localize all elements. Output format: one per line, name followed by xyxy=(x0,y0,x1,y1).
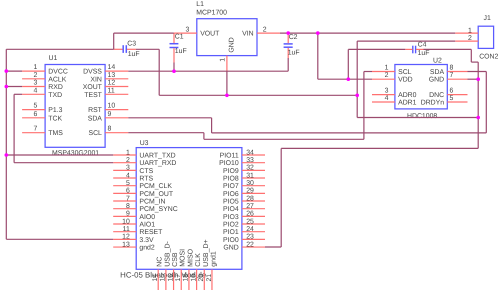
svg-text:30: 30 xyxy=(246,180,254,187)
wire VDD row xyxy=(318,78,372,80)
svg-text:PIO11: PIO11 xyxy=(220,153,239,160)
U3 pin 1 UART_TXD stub xyxy=(113,154,136,156)
L1 pin 3 VOUT stub xyxy=(174,32,197,34)
svg-text:SDA: SDA xyxy=(430,69,445,76)
svg-text:U1: U1 xyxy=(49,55,58,62)
wire GND net to U3 pin22 xyxy=(265,246,281,248)
svg-text:6: 6 xyxy=(450,88,454,95)
ic U2 box HDC1008 xyxy=(395,65,447,109)
svg-text:GND: GND xyxy=(223,245,238,252)
wire SCL net from U1 pin8 xyxy=(128,132,204,134)
svg-text:ADR1: ADR1 xyxy=(398,100,417,107)
svg-text:TXD: TXD xyxy=(48,92,62,99)
svg-text:U2: U2 xyxy=(433,57,442,64)
svg-text:1uF: 1uF xyxy=(288,50,300,57)
svg-text:3: 3 xyxy=(33,80,37,87)
svg-text:2: 2 xyxy=(263,26,267,33)
svg-text:DNC: DNC xyxy=(429,92,444,99)
wire 3.3V net C3-left run xyxy=(6,48,113,50)
wire GND net lower row xyxy=(357,117,478,119)
svg-text:C1: C1 xyxy=(175,34,184,41)
svg-text:NC: NC xyxy=(157,257,164,267)
svg-text:C2: C2 xyxy=(289,34,298,41)
svg-text:J1: J1 xyxy=(484,15,491,22)
junction C1 bottom xyxy=(172,69,176,73)
svg-text:gnd1: gnd1 xyxy=(209,251,217,267)
junction VDD tap xyxy=(316,31,320,35)
wire 3.3V to U3 pin12 xyxy=(6,238,113,240)
wire GND net C3-right run xyxy=(136,48,159,50)
U2 pin 1 SCL stub xyxy=(372,71,395,73)
capacitor C1 plates xyxy=(170,43,179,45)
svg-text:PIO1: PIO1 xyxy=(223,229,239,236)
regulator L1 box MCP1700 xyxy=(197,19,257,56)
C4 left pin stub xyxy=(405,48,412,50)
svg-text:DRDYn: DRDYn xyxy=(421,100,445,107)
U3 pin 10 AIO1 stub xyxy=(113,223,136,225)
svg-text:1: 1 xyxy=(468,27,472,34)
U3 pin 27 PIO4 stub xyxy=(242,208,265,210)
svg-text:TMS: TMS xyxy=(48,130,63,137)
svg-text:HDC1008: HDC1008 xyxy=(407,113,437,120)
U3 pin 29 PIO6 stub xyxy=(242,192,265,194)
U3 pin 18 MISO stub xyxy=(188,269,190,290)
wire DVCC branch xyxy=(6,70,22,72)
wire DVSS net row xyxy=(128,70,288,72)
svg-text:RTS: RTS xyxy=(139,176,153,183)
junction C4 left xyxy=(347,77,351,81)
U3 pin 5 PCM_CLK stub xyxy=(113,185,136,187)
U3 pin 20 USB_D+ stub xyxy=(203,269,205,290)
svg-text:DVSS: DVSS xyxy=(83,69,102,76)
C1 top pin stub xyxy=(173,33,175,43)
svg-text:3: 3 xyxy=(385,88,389,95)
U3 pin 3 CTS stub xyxy=(113,169,136,171)
svg-text:23: 23 xyxy=(246,234,254,241)
U3 pin 21 gnd1 stub xyxy=(211,269,213,290)
wire C4 right jog xyxy=(471,61,478,63)
U1 pin 4 TXD stub xyxy=(22,93,45,95)
U1 pin 2 ACLK stub xyxy=(22,78,45,80)
junction C2 top xyxy=(286,31,290,35)
svg-text:PIO8: PIO8 xyxy=(223,176,239,183)
svg-text:UART_TXD: UART_TXD xyxy=(139,153,175,160)
svg-text:CTS: CTS xyxy=(139,168,153,175)
svg-text:CON2: CON2 xyxy=(479,54,498,61)
capacitor C4 plates xyxy=(412,46,414,54)
svg-text:PIO0: PIO0 xyxy=(223,237,239,244)
U1 pin 5 P1.3 stub xyxy=(22,109,45,111)
U1 pin 6 TCK stub xyxy=(22,117,45,119)
U1 pin 3 RXD stub xyxy=(22,86,45,88)
wire VDD drop xyxy=(317,33,319,79)
svg-text:VIN: VIN xyxy=(242,31,254,38)
svg-text:8: 8 xyxy=(126,203,130,210)
wire SCL net up vertical xyxy=(363,72,365,140)
wire TXD net horizontal at U1 xyxy=(14,93,22,95)
svg-text:1: 1 xyxy=(385,65,389,72)
svg-text:XOUT: XOUT xyxy=(83,84,103,91)
U2 pin 4 ADR1 stub xyxy=(372,101,395,103)
svg-text:7: 7 xyxy=(33,126,37,133)
ic U1 box MSP430G2001 xyxy=(45,65,105,148)
svg-text:VOUT: VOUT xyxy=(200,31,220,38)
svg-text:13: 13 xyxy=(108,72,116,79)
U3 pin 12 3.3V stub xyxy=(113,238,136,240)
U3 pin 9 AIO0 stub xyxy=(113,215,136,217)
svg-text:13: 13 xyxy=(122,241,130,248)
U3 pin 8 PCM_SYNC stub xyxy=(113,208,136,210)
svg-text:SCL: SCL xyxy=(88,130,102,137)
svg-text:gnd2: gnd2 xyxy=(139,245,154,252)
L1 pin 2 VIN stub xyxy=(257,32,280,34)
svg-text:SDA: SDA xyxy=(88,115,103,122)
wire L1 GND link xyxy=(226,71,228,95)
svg-text:9: 9 xyxy=(108,111,112,118)
module U3 box HC-05 xyxy=(136,148,242,270)
svg-text:3: 3 xyxy=(126,165,130,172)
svg-text:C3: C3 xyxy=(127,40,136,47)
svg-text:22: 22 xyxy=(246,241,254,248)
U3 pin 30 PIO7 stub xyxy=(242,185,265,187)
J1 pin 2 stub xyxy=(455,40,478,42)
svg-text:16: 16 xyxy=(167,274,174,282)
U3 pin 22 GND stub xyxy=(242,246,265,248)
svg-text:1uF: 1uF xyxy=(175,48,187,55)
U3 pin 23 PIO0 stub xyxy=(242,238,265,240)
svg-text:14: 14 xyxy=(152,274,159,282)
svg-text:4: 4 xyxy=(126,172,130,179)
wire GND net J1 vertical xyxy=(356,41,358,117)
U1 pin 1 DVCC stub xyxy=(22,70,45,72)
U3 pin 15 USB_D- stub xyxy=(165,269,167,290)
svg-text:11: 11 xyxy=(123,226,130,233)
svg-text:DVCC: DVCC xyxy=(48,69,68,76)
svg-text:PIO3: PIO3 xyxy=(223,214,239,221)
wire SCL net to U2 pin1 xyxy=(364,71,372,73)
svg-text:MSP430G2001: MSP430G2001 xyxy=(52,150,99,157)
U1 pin 12 XOUT stub xyxy=(105,86,128,88)
svg-text:ADR0: ADR0 xyxy=(398,92,417,99)
U2 pin 8 SDA stub xyxy=(447,71,467,73)
svg-text:2: 2 xyxy=(126,157,130,164)
svg-text:10: 10 xyxy=(122,218,130,225)
wire 3.3V net drop to C3 row xyxy=(113,33,115,49)
junction GND lower xyxy=(476,116,480,120)
C3 right pin stub xyxy=(127,48,136,50)
svg-text:10: 10 xyxy=(108,103,116,110)
U3 pin 7 PCM_IN stub xyxy=(113,200,136,202)
svg-text:34: 34 xyxy=(246,149,254,156)
svg-text:31: 31 xyxy=(246,172,254,179)
wire SDA net to U2 pin8 xyxy=(468,71,487,73)
capacitor C2 plates xyxy=(284,43,293,45)
U1 pin 8 SCL stub xyxy=(105,132,128,134)
U3 pin 16 CSB stub xyxy=(173,269,175,290)
wire C4 left vertical xyxy=(347,49,349,79)
junction U2 GND xyxy=(476,77,480,81)
svg-text:SCL: SCL xyxy=(398,69,412,76)
svg-text:PIO10: PIO10 xyxy=(219,160,239,167)
svg-text:GND: GND xyxy=(429,77,444,84)
svg-text:7: 7 xyxy=(450,72,454,79)
U3 pin 24 PIO1 stub xyxy=(242,231,265,233)
wire SDA net right vertical xyxy=(485,72,487,133)
wire GND net J1 pin2 row xyxy=(357,40,455,42)
svg-text:PCM_SYNC: PCM_SYNC xyxy=(139,206,177,213)
U1 pin 10 RST stub xyxy=(105,109,128,111)
U3 pin 25 PIO2 stub xyxy=(242,223,265,225)
U3 pin 34 PIO11 stub xyxy=(242,154,265,156)
svg-text:UART_RXD: UART_RXD xyxy=(139,160,176,167)
U2 pin 2 VDD stub xyxy=(372,78,395,80)
svg-text:USB_D+: USB_D+ xyxy=(203,239,210,266)
J1 pin 1 stub xyxy=(455,32,478,34)
svg-text:PCM_CLK: PCM_CLK xyxy=(139,183,172,190)
svg-text:AIO0: AIO0 xyxy=(139,214,155,221)
wire C4 left run xyxy=(348,48,405,50)
svg-text:8: 8 xyxy=(108,126,112,133)
svg-text:RESET: RESET xyxy=(139,229,163,236)
U1 pin 7 TMS stub xyxy=(22,132,45,134)
wire C4 right run xyxy=(424,48,472,50)
svg-text:7: 7 xyxy=(126,195,130,202)
wire SCL net jog down xyxy=(203,133,205,140)
svg-text:2: 2 xyxy=(33,72,37,79)
wire 3.3V net VOUT row xyxy=(114,32,174,34)
U3 pin 26 PIO3 stub xyxy=(242,215,265,217)
wire GND net right vertical xyxy=(477,62,479,148)
U3 pin 19 CLK stub xyxy=(196,269,198,290)
svg-text:3: 3 xyxy=(186,26,190,33)
junction GND mid xyxy=(355,94,359,98)
svg-text:12: 12 xyxy=(108,80,116,87)
U3 pin 11 RESET stub xyxy=(113,231,136,233)
wire C2 bottom link xyxy=(287,58,289,71)
svg-text:33: 33 xyxy=(246,157,254,164)
svg-text:1: 1 xyxy=(220,58,227,62)
wire GND net main row xyxy=(159,94,357,96)
wire C1 bottom link xyxy=(173,63,175,72)
svg-text:PIO9: PIO9 xyxy=(223,168,239,175)
U3 pin 28 PIO5 stub xyxy=(242,200,265,202)
svg-text:29: 29 xyxy=(246,188,254,195)
svg-text:MISO: MISO xyxy=(187,248,194,266)
U1 pin 14 DVSS stub xyxy=(105,70,128,72)
svg-text:2: 2 xyxy=(468,35,472,42)
svg-text:1uF: 1uF xyxy=(128,51,140,58)
wire GND net return vertical xyxy=(280,148,282,247)
wire SCL net long row xyxy=(204,138,364,140)
wire TXD net to U3 pin2 xyxy=(14,162,113,164)
svg-text:CLK: CLK xyxy=(195,253,202,267)
svg-text:PCM_IN: PCM_IN xyxy=(139,199,165,206)
wire VIN net row xyxy=(280,32,455,34)
svg-text:32: 32 xyxy=(246,165,254,172)
svg-text:PCM_OUT: PCM_OUT xyxy=(139,191,173,198)
wire C4 right drop xyxy=(470,49,472,62)
svg-text:RXD: RXD xyxy=(48,84,63,91)
U3 pin 13 gnd2 stub xyxy=(113,246,136,248)
svg-text:8: 8 xyxy=(450,65,454,72)
svg-text:18: 18 xyxy=(183,274,190,282)
svg-text:USB_D-: USB_D- xyxy=(164,240,171,266)
svg-text:11: 11 xyxy=(108,87,115,94)
U3 pin 14 NC stub xyxy=(157,269,159,290)
svg-text:PIO2: PIO2 xyxy=(223,222,239,229)
wire SDA net from U1 pin9 xyxy=(128,117,211,119)
wire SDA net long row xyxy=(212,132,487,134)
svg-text:6: 6 xyxy=(126,188,130,195)
U3 pin 4 RTS stub xyxy=(113,177,136,179)
svg-text:4: 4 xyxy=(385,95,389,102)
L1 pin 1 GND stub xyxy=(226,56,228,72)
U1 pin 13 XIN stub xyxy=(105,78,128,80)
svg-text:PIO4: PIO4 xyxy=(223,206,239,213)
svg-text:2: 2 xyxy=(385,72,389,79)
wire RXD branch xyxy=(6,86,22,88)
svg-text:TEST: TEST xyxy=(84,92,102,99)
svg-text:AIO1: AIO1 xyxy=(139,222,155,229)
svg-text:26: 26 xyxy=(246,211,254,218)
svg-text:19: 19 xyxy=(190,274,197,282)
svg-text:28: 28 xyxy=(246,195,254,202)
U2 pin 7 GND stub xyxy=(447,78,467,80)
U3 pin 31 PIO8 stub xyxy=(242,177,265,179)
U3 pin 6 PCM_OUT stub xyxy=(113,192,136,194)
wire GND net drop left xyxy=(158,49,160,95)
svg-text:27: 27 xyxy=(246,203,254,210)
C4 right pin stub xyxy=(416,48,424,50)
svg-text:U3: U3 xyxy=(140,140,149,147)
wire U2 GND pin7 link xyxy=(468,78,479,80)
svg-text:17: 17 xyxy=(175,274,182,282)
C2 top pin stub xyxy=(287,33,289,43)
U3 pin 2 UART_RXD stub xyxy=(113,162,136,164)
U3 pin 32 PIO9 stub xyxy=(242,169,265,171)
svg-text:20: 20 xyxy=(198,274,205,282)
C2 bottom pin stub xyxy=(287,48,289,58)
svg-text:MCP1700: MCP1700 xyxy=(196,10,227,17)
svg-text:15: 15 xyxy=(160,274,167,282)
connector J1 box CON2 xyxy=(478,26,493,48)
svg-text:C4: C4 xyxy=(418,42,427,49)
junction RXD xyxy=(5,85,9,89)
U2 pin 3 ADR0 stub xyxy=(372,94,395,96)
svg-text:RST: RST xyxy=(88,107,103,114)
svg-text:ACLK: ACLK xyxy=(48,76,66,83)
svg-text:PIO6: PIO6 xyxy=(223,191,239,198)
wire GND net return row xyxy=(281,147,478,149)
wire UART_TXD branch xyxy=(6,154,113,156)
svg-text:12: 12 xyxy=(122,234,130,241)
svg-text:CSB: CSB xyxy=(172,252,179,267)
svg-text:3.3V: 3.3V xyxy=(139,237,154,244)
svg-text:1uF: 1uF xyxy=(418,50,430,57)
svg-text:1: 1 xyxy=(33,64,37,71)
svg-text:1: 1 xyxy=(126,149,130,156)
wire SDA net jog down xyxy=(211,118,213,133)
wire TXD net vertical xyxy=(13,94,15,162)
svg-text:TCK: TCK xyxy=(48,115,62,122)
U2 pin 5 DRDYn stub xyxy=(447,101,467,103)
svg-text:VDD: VDD xyxy=(398,77,413,84)
svg-text:P1.3: P1.3 xyxy=(48,107,62,114)
svg-text:4: 4 xyxy=(33,87,37,94)
capacitor C3 plates xyxy=(122,45,124,53)
U1 pin 9 SDA stub xyxy=(105,117,128,119)
svg-text:24: 24 xyxy=(246,226,254,233)
svg-text:6: 6 xyxy=(33,111,37,118)
U3 pin 17 MOSI stub xyxy=(180,269,182,290)
svg-text:L1: L1 xyxy=(196,1,204,8)
svg-text:9: 9 xyxy=(126,211,130,218)
junction UART_TXD xyxy=(5,153,9,157)
svg-text:GND: GND xyxy=(228,37,235,52)
svg-text:PIO5: PIO5 xyxy=(223,199,239,206)
U2 pin 6 DNC stub xyxy=(447,94,467,96)
svg-text:MOSI: MOSI xyxy=(180,249,187,267)
U3 pin 33 PIO10 stub xyxy=(242,162,265,164)
junction L1 GND xyxy=(225,94,229,98)
svg-text:PIO7: PIO7 xyxy=(223,183,239,190)
svg-text:25: 25 xyxy=(246,218,254,225)
svg-text:14: 14 xyxy=(108,64,116,71)
svg-text:5: 5 xyxy=(450,95,454,102)
wire 3.3V net left vertical xyxy=(5,49,7,239)
svg-text:21: 21 xyxy=(206,274,213,282)
junction DVCC xyxy=(5,69,9,73)
svg-text:5: 5 xyxy=(126,180,130,187)
svg-text:5: 5 xyxy=(33,103,37,110)
C1 bottom pin stub xyxy=(173,48,175,62)
U1 pin 11 TEST stub xyxy=(105,93,128,95)
svg-text:XIN: XIN xyxy=(90,76,102,83)
C3 left pin stub xyxy=(114,48,123,50)
